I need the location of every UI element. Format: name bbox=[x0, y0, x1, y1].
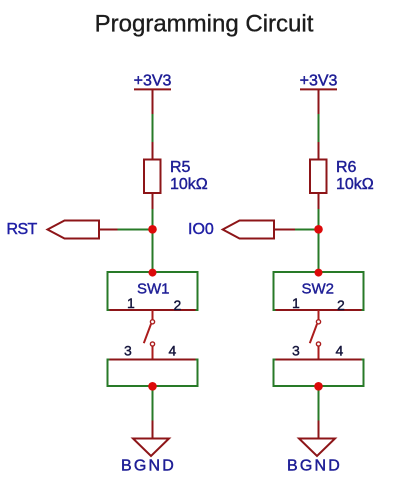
SW1 pins 1-2 lead bbox=[110, 309, 196, 311]
svg-text:+3V3: +3V3 bbox=[134, 73, 172, 90]
svg-text:4: 4 bbox=[169, 343, 177, 359]
SW2 pins 3-4 lead bbox=[276, 359, 362, 361]
svg-text:10kΩ: 10kΩ bbox=[336, 176, 374, 193]
svg-text:2: 2 bbox=[337, 297, 345, 313]
svg-text:4: 4 bbox=[336, 343, 344, 359]
junction node SW2 top bbox=[315, 269, 323, 277]
junction node SW1 top bbox=[149, 269, 157, 277]
svg-text:IO0: IO0 bbox=[188, 221, 214, 238]
svg-text:3: 3 bbox=[292, 343, 300, 359]
junction node SW2 bottom bbox=[314, 382, 323, 391]
resistor R6 bbox=[310, 142, 327, 210]
SW2 pins 1-2 lead bbox=[276, 309, 362, 311]
resistor R5 bbox=[144, 142, 161, 210]
wire IO0 to node bbox=[295, 229, 319, 231]
switch SW1 body bottom bbox=[108, 360, 198, 387]
switch SW2 body bottom bbox=[274, 360, 364, 387]
pin IO0 flag bbox=[275, 229, 295, 231]
svg-text:RST: RST bbox=[7, 221, 38, 238]
wire SW1 to ground bbox=[152, 386, 154, 421]
svg-text:10kΩ: 10kΩ bbox=[170, 176, 208, 193]
switch SW2 contact bbox=[310, 310, 321, 360]
svg-text:2: 2 bbox=[174, 297, 182, 313]
switch SW2 body top bbox=[274, 272, 364, 310]
svg-text:3: 3 bbox=[124, 343, 132, 359]
wire RST to node bbox=[118, 229, 153, 231]
power +3V3 left symbol bbox=[134, 89, 171, 114]
ground BGND left bbox=[133, 421, 169, 457]
switch SW1 contact bbox=[144, 310, 155, 360]
power +3V3 right symbol bbox=[300, 89, 337, 114]
wire power to R6 bbox=[318, 114, 320, 143]
switch SW1 body top bbox=[108, 272, 198, 310]
wire R6 to SW2 bbox=[318, 209, 320, 272]
ground BGND right bbox=[299, 421, 335, 457]
svg-text:BGND: BGND bbox=[287, 458, 342, 475]
svg-text:R5: R5 bbox=[170, 159, 191, 176]
svg-text:BGND: BGND bbox=[121, 458, 176, 475]
svg-text:1: 1 bbox=[292, 295, 300, 311]
junction node IO0 bbox=[314, 225, 323, 234]
svg-text:1: 1 bbox=[127, 295, 135, 311]
svg-text:SW1: SW1 bbox=[137, 281, 170, 298]
SW1 pins 3-4 lead bbox=[110, 359, 196, 361]
svg-text:+3V3: +3V3 bbox=[300, 73, 338, 90]
junction node SW1 bottom bbox=[148, 382, 157, 391]
wire power to R5 bbox=[152, 114, 154, 143]
junction node RST bbox=[148, 225, 157, 234]
net flag IO0 bbox=[223, 221, 274, 239]
net flag RST bbox=[48, 221, 100, 239]
svg-text:Programming Circuit: Programming Circuit bbox=[95, 11, 314, 38]
svg-text:SW2: SW2 bbox=[302, 281, 335, 298]
wire R5 to SW1 bbox=[152, 209, 154, 272]
wire SW2 to ground bbox=[318, 386, 320, 421]
pin RST flag bbox=[100, 229, 118, 231]
svg-text:R6: R6 bbox=[336, 159, 357, 176]
